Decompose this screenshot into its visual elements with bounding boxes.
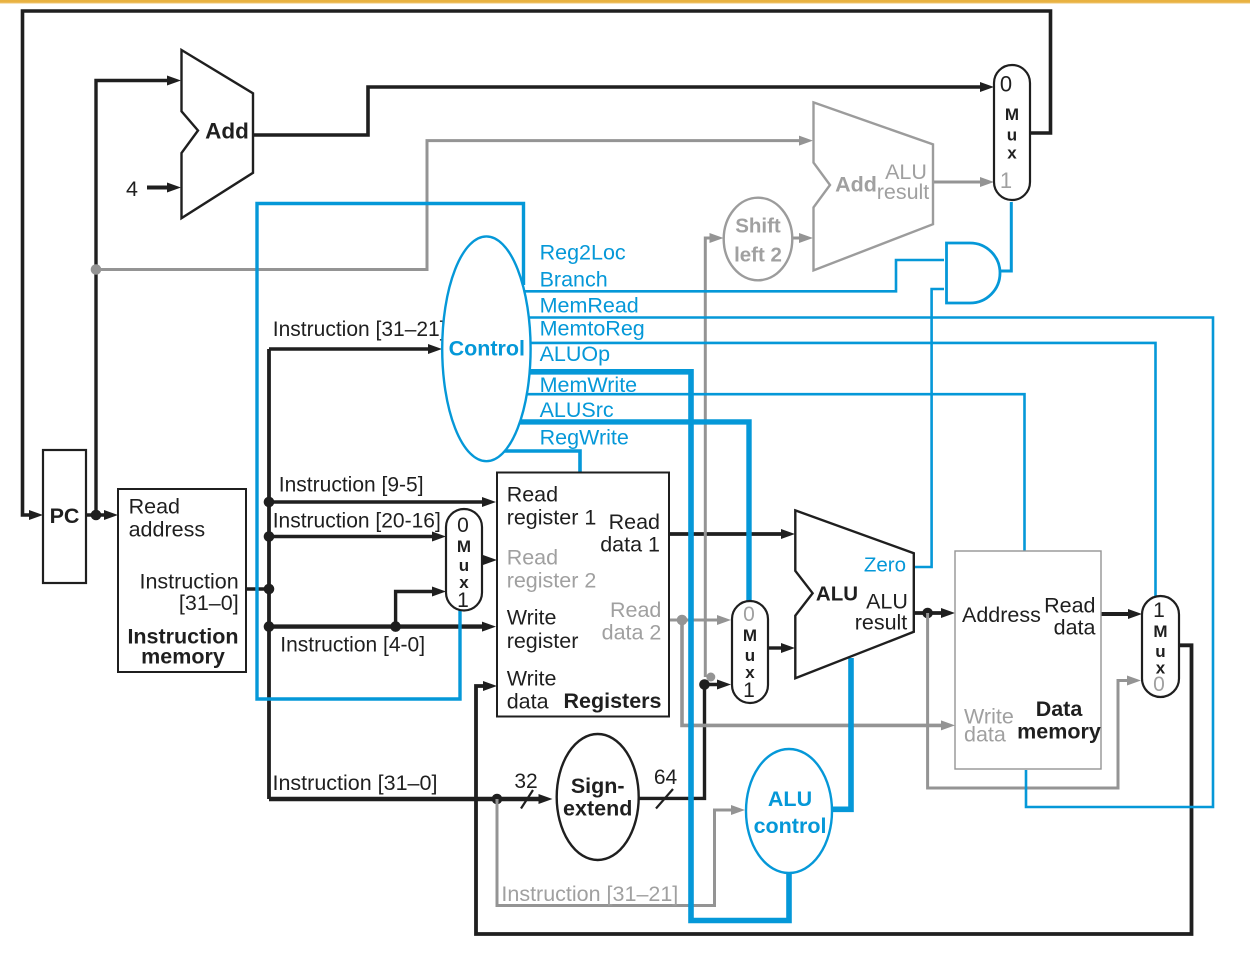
svg-text:Zero: Zero [864, 554, 906, 577]
wire MemWrite to Data memory [486, 394, 1025, 552]
oval ALU control [746, 749, 832, 873]
label 32 with slash [514, 770, 537, 809]
svg-text:Write: Write [507, 667, 557, 691]
svg-text:0: 0 [1153, 673, 1165, 696]
node bus tap [4-0] [264, 621, 275, 632]
svg-text:1: 1 [1153, 599, 1165, 622]
svg-text:Instruction [31–21]: Instruction [31–21] [273, 318, 446, 341]
svg-text:PC: PC [50, 504, 80, 528]
wire Instruction [9-5] to Read register 1 [269, 497, 496, 507]
oval Shift left 2 [724, 198, 793, 281]
label 4 [126, 177, 138, 201]
svg-text:M: M [743, 626, 757, 645]
wire PC value up to Add input [96, 76, 181, 516]
node gray junction near mux [706, 673, 715, 682]
wire Instruction [31-0] to Sign-extend [269, 794, 553, 804]
wire Read data 2 to Data memory Write data [682, 620, 955, 730]
label RegWrite [540, 426, 629, 450]
svg-text:32: 32 [514, 770, 537, 793]
svg-text:Data: Data [1036, 697, 1084, 721]
svg-text:4: 4 [126, 177, 138, 201]
svg-text:data: data [964, 723, 1006, 747]
label MemRead [540, 294, 639, 318]
wire MemRead to Data memory [486, 318, 1213, 808]
wire ALU result bypass to Mux input 0 [928, 613, 1141, 788]
wire gray PC branch-base to Add (branch adder) [96, 136, 813, 270]
svg-text:0: 0 [743, 603, 755, 626]
svg-text:Read: Read [1044, 594, 1095, 618]
label Instruction [9-5] [279, 474, 424, 497]
label Instruction [31-21] [273, 318, 446, 341]
register PC [43, 450, 86, 583]
wire instruction bus vertical [267, 349, 271, 799]
svg-text:u: u [1007, 126, 1017, 145]
svg-text:register 2: register 2 [507, 569, 597, 593]
wire gray Instruction [31-21] to ALU control [497, 799, 745, 906]
mux ALUSrc (0/Mux/1) [732, 601, 768, 703]
svg-text:data 2: data 2 [602, 621, 662, 645]
adder Add (branch target) [814, 102, 934, 270]
wire RegWrite to Registers [486, 451, 580, 473]
svg-text:Add: Add [835, 173, 877, 197]
wire Read data 2 to Mux input 0 [669, 615, 731, 625]
svg-text:memory: memory [1017, 720, 1101, 744]
svg-text:1: 1 [457, 589, 469, 612]
block Data memory [955, 551, 1101, 769]
mux MemtoReg (1/Mux/0) [1142, 596, 1179, 697]
svg-text:result: result [877, 180, 930, 204]
label ALUSrc [540, 398, 614, 422]
svg-text:result: result [855, 611, 908, 635]
svg-text:Shift: Shift [735, 215, 781, 238]
svg-text:Instruction [9-5]: Instruction [9-5] [279, 474, 424, 497]
wire Reg2Loc (control to register mux select) [257, 204, 524, 700]
svg-text:Instruction [31–0]: Instruction [31–0] [273, 771, 438, 795]
svg-text:extend: extend [563, 797, 632, 821]
node bus tap [20-16] [264, 531, 275, 542]
node gray junction on PC wire [91, 264, 102, 275]
alu ALU (main) [795, 510, 914, 678]
svg-text:0: 0 [457, 514, 469, 537]
label Instruction [20-16] [273, 510, 441, 533]
node PC-output junction [91, 510, 102, 521]
svg-text:Reg2Loc: Reg2Loc [540, 241, 626, 265]
svg-text:Read: Read [507, 546, 558, 570]
svg-text:M: M [1005, 105, 1019, 124]
node bus tap [9-5] [264, 497, 275, 508]
svg-text:control: control [754, 814, 827, 838]
svg-text:Registers: Registers [564, 689, 662, 713]
label Branch [540, 268, 608, 292]
svg-text:ALU: ALU [816, 583, 858, 606]
wire Sign-extend output to Mux input 1 [639, 680, 731, 799]
wire gray sign-extend to Shift left 2 [705, 233, 723, 677]
wire Shift left 2 output to Add [792, 233, 813, 243]
svg-text:Instruction: Instruction [140, 570, 239, 594]
wire Mux output to ALU input [768, 643, 795, 653]
label Reg2Loc [540, 241, 626, 265]
svg-text:1: 1 [743, 679, 755, 702]
label Instruction [31-0] (bottom) [273, 771, 438, 795]
svg-text:Branch: Branch [540, 268, 608, 292]
wire Zero to AND gate [914, 289, 944, 567]
node ALU result junction [922, 608, 933, 619]
orange header bar [0, 0, 1250, 4]
svg-text:64: 64 [654, 766, 678, 789]
block Registers [497, 473, 669, 717]
svg-text:Read: Read [507, 483, 558, 507]
svg-text:data 1: data 1 [600, 533, 660, 557]
node sign-extend output junction [699, 679, 710, 690]
wire AND output to Mux select [999, 202, 1011, 271]
oval Control [442, 236, 530, 461]
svg-text:MemtoReg: MemtoReg [540, 317, 645, 341]
wire ALUSrc to Mux select [486, 422, 749, 602]
node sign-extend input junction [492, 794, 503, 805]
wire MemtoReg to Mux select [486, 343, 1156, 597]
adder Add (PC+4) [182, 50, 254, 218]
svg-text:Add: Add [205, 119, 249, 144]
svg-text:Read: Read [610, 598, 661, 622]
wire Read data 1 to ALU input [669, 529, 795, 539]
oval Sign-extend [557, 734, 639, 860]
svg-text:Instruction [31–21]: Instruction [31–21] [501, 882, 678, 906]
node bus tap memory-output [264, 584, 275, 595]
svg-text:MemWrite: MemWrite [540, 373, 638, 397]
label ALUOp [540, 342, 611, 366]
svg-text:Control: Control [449, 337, 525, 361]
node Read data 2 junction [677, 615, 688, 626]
wire ALUOp to ALU control [486, 372, 789, 921]
svg-text:register 1: register 1 [507, 506, 597, 530]
wire write-back (mux output to Registers Write data) [476, 645, 1192, 934]
svg-text:MemRead: MemRead [540, 294, 639, 318]
svg-text:x: x [1007, 144, 1017, 163]
svg-text:Address: Address [962, 603, 1041, 627]
svg-text:Read: Read [129, 495, 180, 519]
wire Instruction memory output [246, 587, 268, 590]
svg-text:ALUOp: ALUOp [540, 342, 611, 366]
wire constant 4 into Add [147, 183, 181, 193]
svg-text:address: address [129, 518, 206, 542]
wire Instruction [4-0] to Write register [269, 622, 496, 632]
svg-text:Instruction [4-0]: Instruction [4-0] [280, 634, 425, 657]
svg-text:register: register [507, 629, 579, 653]
wire Read data to Mux input 1 [1101, 609, 1142, 619]
label MemWrite [540, 373, 638, 397]
wire ALU result to Data memory Address [914, 608, 955, 618]
label gray Instruction [31-21] [501, 882, 678, 906]
node junction on Instruction [4-0] [390, 621, 401, 632]
svg-text:ALU: ALU [768, 787, 812, 811]
label Zero [864, 554, 906, 577]
label Instruction [4-0] [280, 634, 425, 657]
mux PC-source (0/Mux/1) [994, 65, 1030, 200]
svg-text:ALUSrc: ALUSrc [540, 398, 614, 422]
wire Add output to Mux input 0 [253, 82, 994, 135]
wire Instruction [31-21] to Control [269, 344, 442, 354]
svg-text:[31–0]: [31–0] [179, 591, 239, 615]
label 64 with slash [654, 766, 678, 809]
svg-text:M: M [457, 537, 471, 556]
svg-text:M: M [1153, 622, 1167, 641]
wire Instruction [4-0] tap to Mux input 1 [396, 587, 446, 627]
wire ALU control output to ALU [800, 658, 851, 809]
svg-text:1: 1 [1000, 168, 1012, 193]
svg-text:data: data [1054, 616, 1096, 640]
svg-text:memory: memory [141, 645, 225, 669]
wire PC output to Instruction memory Read address [86, 510, 118, 520]
gate AND (branch) [947, 243, 1001, 303]
svg-text:Instruction [20-16]: Instruction [20-16] [273, 510, 441, 533]
wire Instruction [20-16] to Mux input 0 [269, 532, 446, 542]
svg-text:0: 0 [1000, 72, 1012, 97]
wire PC-feedback loop (mux output to PC input) [23, 11, 1051, 520]
block Instruction memory [118, 489, 246, 672]
label MemtoReg [540, 317, 645, 341]
wire Mux output to Read register 2 [482, 555, 497, 565]
svg-text:data: data [507, 690, 549, 714]
svg-text:Sign-: Sign- [571, 774, 625, 798]
svg-text:Read: Read [609, 510, 660, 534]
svg-text:Write: Write [507, 606, 557, 630]
mux register-select (0/Mux/1) [446, 509, 482, 612]
svg-text:RegWrite: RegWrite [540, 426, 629, 450]
wire branch Add result to Mux input 1 [933, 177, 994, 187]
svg-text:left 2: left 2 [734, 244, 782, 267]
wire Branch to AND gate [486, 260, 944, 291]
